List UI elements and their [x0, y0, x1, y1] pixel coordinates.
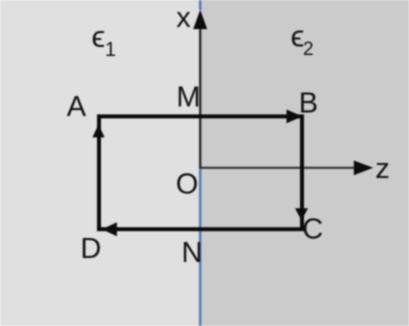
- svg-text:ϵ: ϵ: [92, 19, 106, 54]
- svg-text:D: D: [80, 233, 101, 265]
- svg-text:z: z: [375, 153, 390, 185]
- svg-text:C: C: [302, 214, 323, 246]
- svg-text:1: 1: [105, 39, 116, 61]
- svg-text:N: N: [182, 237, 203, 269]
- svg-text:2: 2: [303, 39, 314, 60]
- svg-text:O: O: [176, 169, 199, 201]
- svg-text:M: M: [176, 82, 200, 114]
- svg-text:x: x: [176, 2, 191, 34]
- svg-text:A: A: [67, 91, 87, 123]
- svg-text:B: B: [299, 88, 318, 120]
